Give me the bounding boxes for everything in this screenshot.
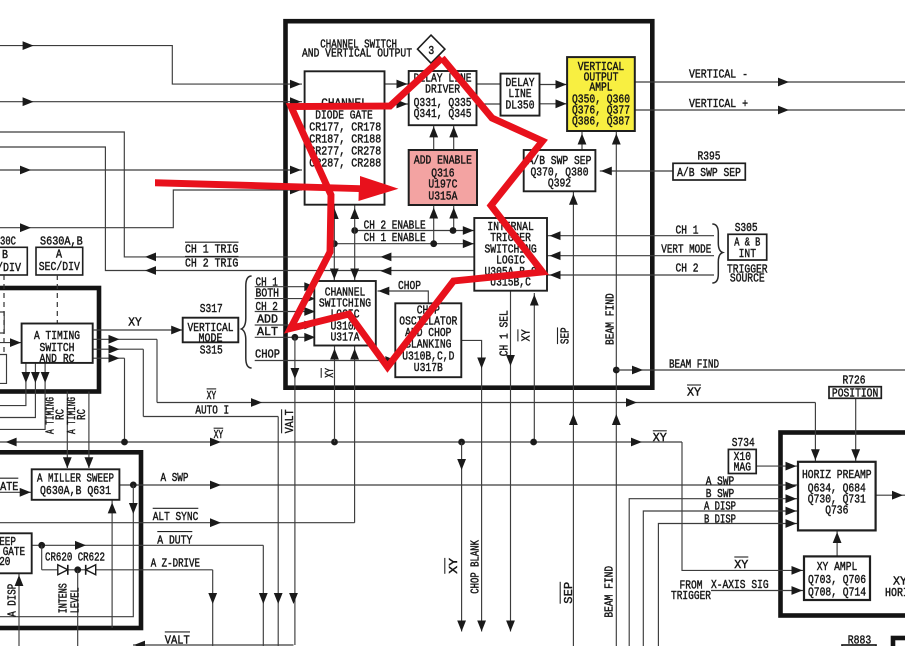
svg-text:HORIZ: HORIZ: [885, 587, 905, 600]
svg-text:Q620: Q620: [0, 556, 10, 569]
svg-text:XY: XY: [448, 558, 461, 574]
svg-text:ALT: ALT: [257, 326, 278, 339]
svg-text:U315A: U315A: [428, 191, 457, 204]
svg-text:AUTO I: AUTO I: [195, 404, 229, 417]
svg-text:XY: XY: [521, 329, 534, 341]
svg-text:XY: XY: [128, 317, 141, 330]
svg-text:XY: XY: [734, 559, 748, 572]
svg-text:A Z-DRIVE: A Z-DRIVE: [151, 558, 200, 571]
svg-text:CR177, CR178: CR177, CR178: [309, 121, 381, 134]
svg-text:BEAM FIND: BEAM FIND: [603, 566, 616, 618]
svg-text:XY: XY: [653, 432, 667, 445]
svg-text:A: A: [56, 249, 62, 262]
svg-text:S317: S317: [200, 303, 223, 316]
svg-text:A DISP: A DISP: [7, 584, 20, 617]
svg-text:CH 2: CH 2: [676, 263, 699, 276]
svg-text:Q703, Q706: Q703, Q706: [808, 574, 866, 587]
svg-text:SEP: SEP: [563, 582, 576, 604]
svg-text:R726: R726: [843, 374, 866, 387]
svg-text:Q630A,B Q631: Q630A,B Q631: [40, 485, 111, 498]
svg-text:XY: XY: [214, 429, 224, 442]
svg-text:CH 1 SEL: CH 1 SEL: [499, 310, 512, 356]
svg-text:CR277, CR278: CR277, CR278: [309, 145, 381, 158]
svg-text:A DISP: A DISP: [704, 500, 736, 513]
svg-text:CH 2: CH 2: [256, 301, 278, 314]
svg-text:AND VERTICAL OUTPUT: AND VERTICAL OUTPUT: [302, 48, 412, 61]
svg-text:A SWP: A SWP: [161, 472, 189, 485]
svg-text:A DUTY: A DUTY: [157, 534, 192, 547]
svg-text:SOURCE: SOURCE: [730, 273, 765, 286]
svg-text:A SWP: A SWP: [706, 476, 734, 489]
svg-text:DL350: DL350: [506, 99, 535, 112]
svg-text:INT: INT: [739, 248, 756, 261]
svg-text:B DISP: B DISP: [704, 514, 736, 527]
svg-text:CHOP BLANK: CHOP BLANK: [469, 540, 482, 594]
svg-text:CR620 CR622: CR620 CR622: [45, 552, 105, 565]
svg-text:TRIGGER: TRIGGER: [671, 590, 711, 603]
svg-text:S734: S734: [732, 437, 755, 450]
svg-text:XY: XY: [324, 368, 337, 378]
svg-text:HORIZ PREAMP: HORIZ PREAMP: [802, 469, 872, 482]
svg-text:S315: S315: [200, 344, 223, 357]
svg-text:/DIV: /DIV: [0, 262, 21, 275]
svg-text:Q392: Q392: [548, 178, 571, 191]
svg-text:VERTICAL -: VERTICAL -: [689, 68, 748, 81]
svg-text:S305: S305: [735, 222, 758, 235]
svg-text:VERTICAL +: VERTICAL +: [689, 98, 748, 111]
svg-text:DRIVER: DRIVER: [425, 84, 460, 97]
svg-text:Q708, Q714: Q708, Q714: [808, 587, 866, 600]
svg-text:R395: R395: [698, 150, 721, 163]
svg-text:CH 1: CH 1: [676, 224, 699, 237]
svg-text:U317A: U317A: [331, 331, 360, 344]
svg-text:Q341, Q345: Q341, Q345: [414, 108, 472, 121]
svg-text:CH 1 TRIG: CH 1 TRIG: [185, 243, 238, 256]
svg-text:U197C: U197C: [428, 178, 457, 191]
svg-text:CR187, CR188: CR187, CR188: [309, 133, 381, 146]
svg-text:BEAM FIND: BEAM FIND: [669, 359, 719, 372]
svg-text:3: 3: [428, 44, 434, 58]
svg-text:XY AMPL: XY AMPL: [817, 561, 858, 574]
svg-text:ALT SYNC: ALT SYNC: [153, 511, 199, 524]
svg-text:Q736: Q736: [825, 504, 848, 517]
svg-text:GATE: GATE: [0, 481, 18, 494]
svg-text:MAG: MAG: [734, 462, 751, 475]
svg-text:X-AXIS SIG: X-AXIS SIG: [711, 579, 769, 592]
svg-text:30C: 30C: [0, 235, 16, 248]
svg-text:B SWP: B SWP: [706, 488, 734, 501]
svg-text:S630A,B: S630A,B: [40, 235, 83, 248]
svg-text:AND RC: AND RC: [40, 353, 75, 366]
svg-text:SEC/DIV: SEC/DIV: [39, 261, 80, 274]
svg-text:ADD ENABLE: ADD ENABLE: [414, 154, 472, 167]
svg-text:VERT MODE: VERT MODE: [661, 243, 711, 256]
svg-text:BOTH: BOTH: [256, 287, 280, 300]
svg-text:U317B: U317B: [414, 362, 443, 375]
svg-text:B: B: [2, 249, 8, 262]
svg-text:SEP: SEP: [560, 327, 573, 344]
svg-text:ADD: ADD: [257, 314, 278, 327]
svg-text:CHOP: CHOP: [398, 280, 421, 293]
svg-text:BEAM FIND: BEAM FIND: [604, 293, 617, 345]
svg-text:A MILLER SWEEP: A MILLER SWEEP: [37, 473, 114, 486]
svg-text:RC: RC: [76, 409, 89, 420]
svg-text:VALT: VALT: [284, 409, 297, 433]
svg-text:A/B SWP SEP: A/B SWP SEP: [677, 167, 741, 180]
svg-text:LEVEL: LEVEL: [70, 587, 83, 613]
svg-text:CH 2 TRIG: CH 2 TRIG: [185, 258, 238, 271]
svg-text:CH 2 ENABLE: CH 2 ENABLE: [364, 219, 426, 232]
svg-text:CH 1 ENABLE: CH 1 ENABLE: [364, 232, 426, 245]
svg-text:Q386, Q387: Q386, Q387: [572, 116, 630, 129]
svg-text:VALT: VALT: [165, 634, 190, 646]
svg-text:XY: XY: [687, 387, 701, 400]
svg-text:CHOP: CHOP: [255, 349, 280, 362]
svg-text:POSITION: POSITION: [832, 387, 878, 400]
svg-text:XY: XY: [207, 390, 217, 403]
